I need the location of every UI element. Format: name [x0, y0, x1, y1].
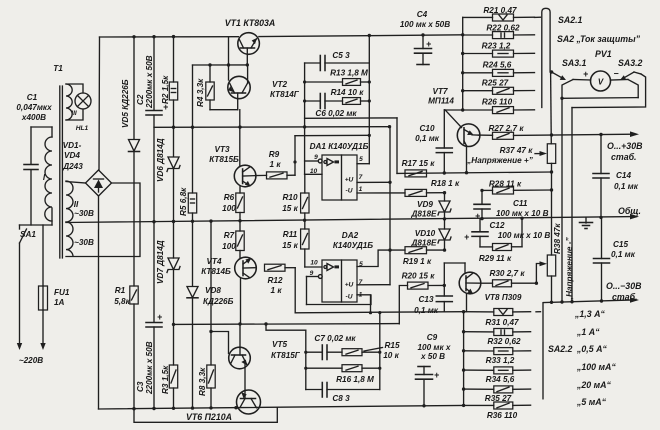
svg-text:С8 3: С8 3 [332, 394, 350, 403]
svg-text:К140УД1Б: К140УД1Б [333, 241, 373, 250]
node top rail junctions [132, 33, 464, 38]
capacitor C9 100mk [416, 333, 451, 406]
svg-text:Т1: Т1 [53, 64, 63, 73]
svg-text:R38 47к: R38 47к [553, 223, 562, 254]
resistor R24 5,6 [463, 61, 535, 77]
transistor VT2 КТ814Г [228, 65, 300, 110]
capacitor C12 100mk x 10V [464, 219, 550, 247]
wire main rail y222 [66, 217, 634, 223]
svg-text:РV1: РV1 [595, 49, 612, 59]
svg-text:КТ815Г: КТ815Г [271, 351, 301, 360]
svg-text:5: 5 [359, 156, 363, 163]
wire DA2 +U pin7 [357, 284, 390, 286]
fuse FU1 [39, 225, 70, 350]
svg-text:С15: С15 [613, 240, 628, 249]
svg-text:R18 1 к: R18 1 к [431, 179, 460, 188]
svg-text:100: 100 [222, 204, 236, 213]
potentiometer R38 47k [540, 223, 575, 302]
capacitor C13 0,1mk [414, 263, 464, 315]
svg-text:100 мк х 10 В: 100 мк х 10 В [496, 209, 549, 218]
wire drive line y327 [172, 322, 399, 326]
wire link to C7 box left [266, 324, 306, 330]
svg-text:R37 47 к: R37 47 к [500, 146, 534, 155]
svg-text:VT1 КТ803А: VT1 КТ803А [225, 18, 276, 28]
resistor R16 1,8М [306, 365, 380, 384]
svg-text:КТ815Б: КТ815Б [209, 155, 239, 164]
svg-text:С6 0,02 мк: С6 0,02 мк [315, 109, 357, 118]
resistor R35 27 [464, 386, 531, 403]
resistor R15 10k [342, 341, 400, 360]
svg-text:R1: R1 [115, 286, 126, 295]
svg-text:FU1: FU1 [54, 288, 70, 297]
wire DA2 pin10 [305, 266, 322, 268]
capacitor C6 0,02mk [315, 94, 357, 119]
svg-text:С12: С12 [489, 221, 504, 230]
svg-text:~30В: ~30В [74, 209, 94, 218]
transistor VT8 П309 [444, 263, 522, 312]
wire riser R30 to R38 wiper [536, 264, 540, 284]
svg-text:R33 1,2: R33 1,2 [486, 356, 515, 365]
resistor R10 15k [282, 174, 309, 220]
svg-text:VD4: VD4 [64, 151, 80, 160]
svg-text:+: + [583, 69, 588, 79]
svg-text:R7: R7 [224, 231, 235, 240]
resistor R6 100 [222, 187, 244, 221]
wire VT1 base line y65 [193, 64, 248, 66]
resistor R19 1k [390, 247, 446, 266]
svg-text:Общ.: Общ. [618, 206, 641, 216]
resistor R36 110 [464, 402, 531, 420]
wire C1 to primary top [31, 126, 52, 128]
svg-text:С4: С4 [417, 10, 428, 19]
switch SA3.2 contact [620, 72, 641, 80]
svg-text:О...+30В: О...+30В [607, 141, 643, 151]
wire DA1 pin5 [357, 163, 369, 165]
svg-text:SА2 „Ток защиты”: SА2 „Ток защиты” [557, 34, 641, 44]
wire top rail left [100, 36, 239, 38]
svg-text:КТ814Г: КТ814Г [270, 90, 300, 99]
node y65 junctions [208, 63, 249, 66]
svg-text:-U: -U [346, 294, 353, 301]
capacitor C11 100mk x 10V [474, 190, 549, 221]
svg-text:R36 110: R36 110 [487, 411, 518, 420]
svg-text:100 мк х 50В: 100 мк х 50В [400, 20, 450, 29]
capacitor C15 0,1mk [594, 217, 636, 301]
svg-text:2200мк х 50В: 2200мк х 50В [145, 341, 154, 395]
svg-text:Д243: Д243 [62, 162, 83, 171]
wire VT6 collector loop [134, 408, 277, 422]
zener VD9 Д818Е [410, 193, 451, 219]
switch bar SA2.2 [536, 303, 543, 399]
diode VD5 КД226Б [121, 37, 140, 286]
svg-text:+: + [464, 232, 469, 242]
capacitor C5 3 [305, 51, 370, 71]
svg-text:R2 1,5к: R2 1,5к [161, 75, 170, 104]
resistor R17 15k [402, 159, 436, 177]
resistor R7 100 [222, 221, 244, 258]
svg-text:х 50 В: х 50 В [420, 352, 445, 361]
wire column x572 [571, 108, 573, 302]
svg-text:VD5 КД226Б: VD5 КД226Б [121, 79, 130, 128]
svg-text:„0,5 А“: „0,5 А“ [576, 344, 607, 354]
svg-text:R10: R10 [282, 193, 297, 202]
bridge rectifier VD1-VD4 [86, 170, 112, 196]
svg-text:R14 10 к: R14 10 к [331, 88, 365, 97]
wire DA2 pin5 [357, 250, 390, 266]
wire VT2 collector column from rail [228, 37, 230, 80]
wire bottom rail [99, 405, 464, 409]
svg-text:0,1 мк: 0,1 мк [611, 250, 636, 259]
svg-text:VT8 П309: VT8 П309 [485, 293, 522, 302]
svg-text:VD8: VD8 [205, 286, 221, 295]
svg-text:0,047мкх: 0,047мкх [16, 103, 52, 112]
resistor R5 6,8k [179, 65, 197, 286]
svg-text:R4 3,3к: R4 3,3к [196, 78, 205, 107]
svg-text:„1 А“: „1 А“ [576, 327, 600, 337]
capacitor C4 100mk x 50V [400, 10, 450, 65]
svg-text:SА2.2: SА2.2 [548, 344, 573, 354]
svg-text:VT7: VT7 [432, 87, 447, 96]
svg-text:0,1 мк: 0,1 мк [614, 182, 639, 191]
svg-text:0,1 мк: 0,1 мк [414, 306, 439, 315]
svg-text:R34 5,6: R34 5,6 [486, 375, 515, 384]
resistor R30 2,7k [481, 269, 538, 287]
svg-text:VD6 Д814Д: VD6 Д814Д [156, 138, 165, 182]
svg-text:R32 0,62: R32 0,62 [487, 337, 521, 346]
transformer winding II upper [66, 181, 94, 222]
node rail222 junctions [152, 216, 602, 224]
ladder left rail bottom R31-R36 [462, 310, 465, 405]
svg-text:R31 0,47: R31 0,47 [485, 318, 519, 327]
resistor R13 1,8М [305, 69, 370, 86]
wire voltmeter loop left [560, 80, 638, 101]
svg-text:О...−30В: О...−30В [606, 281, 642, 291]
svg-text:R24 5,6: R24 5,6 [483, 61, 512, 70]
svg-text:-U: -U [346, 188, 353, 195]
svg-text:R25 27: R25 27 [482, 79, 509, 88]
feedback box 2 verticals [304, 313, 381, 390]
svg-text:VD7 Д814Д: VD7 Д814Д [156, 240, 165, 284]
voltmeter PV1 [573, 69, 628, 92]
svg-text:1 к: 1 к [270, 160, 282, 169]
transistor VT4 КТ814Б [201, 257, 256, 324]
capacitor C2 2200mk [136, 37, 168, 322]
svg-text:С9: С9 [427, 333, 438, 342]
transformer core [59, 86, 61, 258]
potentiometer R37 47k [466, 144, 556, 165]
wire middle rail y127 [154, 126, 390, 129]
resistor R3 1,5k [161, 365, 178, 408]
svg-text:R11: R11 [283, 230, 298, 239]
svg-text:1А: 1А [54, 298, 65, 307]
wire DA1 +U pin7 [357, 181, 390, 183]
svg-text:„20 мА“: „20 мА“ [576, 380, 611, 390]
svg-text:15 к: 15 к [282, 241, 298, 250]
resistor R34 5,6 [464, 367, 531, 384]
wire VT5 collector column [239, 324, 241, 348]
svg-text:Д818Е: Д818Е [410, 210, 437, 219]
svg-text:+: + [426, 39, 431, 49]
svg-text:С14: С14 [616, 171, 631, 180]
zener VD6 Д814Д [156, 138, 180, 221]
capacitor C10 0,1mk [415, 110, 452, 173]
arrow output plus30 [630, 131, 639, 137]
wire right column x551 [550, 72, 553, 302]
capacitor C8 3 [306, 383, 380, 404]
wire winding II top to bridge left [66, 182, 86, 184]
svg-text:2200мк х 50В: 2200мк х 50В [145, 55, 154, 109]
transistor VT5 КТ815Г [229, 340, 301, 391]
resistor R9 1k [256, 150, 295, 179]
resistor R28 11k [480, 180, 553, 195]
svg-text:VT6 П210А: VT6 П210А [186, 412, 232, 422]
svg-text:15 к: 15 к [282, 204, 298, 213]
wire bridge minus down to bottom rail [98, 196, 100, 409]
svg-text:SА2.1: SА2.1 [558, 15, 583, 25]
wire top rail right [259, 35, 463, 37]
wire winding III to lamp [66, 84, 83, 93]
zener VD10 Д818Е [410, 219, 451, 250]
resistor R26 110 [445, 98, 535, 114]
svg-text:С11: С11 [513, 199, 528, 208]
svg-text:VD1-: VD1- [63, 141, 82, 150]
wire bridge plus up to top rail [98, 37, 101, 170]
node plus30 junctions [550, 133, 603, 137]
resistor R1 5,8k [114, 286, 138, 409]
svg-text:100 мк х 10 В: 100 мк х 10 В [498, 231, 551, 240]
svg-text:V: V [598, 78, 604, 87]
svg-text:R19 1 к: R19 1 к [403, 257, 432, 266]
op-amp DA1 К140УД1Б [310, 142, 369, 200]
ground symbol [580, 218, 593, 229]
svg-text:х400В: х400В [21, 113, 46, 122]
svg-text:„5 мА“: „5 мА“ [576, 397, 607, 407]
resistor R25 27 [463, 79, 535, 95]
svg-text:R8 3,3к: R8 3,3к [198, 367, 207, 396]
resistor R2 1,5k [161, 37, 178, 156]
diode VD8 КД226Б [187, 286, 234, 408]
transistor VT7 МП114 [428, 87, 480, 173]
arrow rail222 output [630, 214, 639, 220]
svg-text:+: + [157, 312, 162, 322]
svg-text:VT3: VT3 [214, 145, 229, 154]
wire column x562 [561, 98, 563, 302]
svg-text:7: 7 [359, 174, 363, 181]
transformer winding II lower [66, 222, 94, 256]
svg-text:II: II [74, 200, 79, 209]
svg-text:III: III [71, 110, 77, 117]
svg-text:R23 1,2: R23 1,2 [482, 42, 511, 51]
wire R9 node riser to pin9 and top line [293, 135, 369, 175]
transistor VT6 П210А [237, 390, 261, 414]
svg-text:С2: С2 [136, 94, 145, 105]
wire bottom AC node [20, 224, 53, 226]
wire DA1 pin9 [305, 159, 323, 163]
resistor R33 1,2 [464, 348, 531, 365]
svg-text:R30 2,7 к: R30 2,7 к [489, 269, 525, 278]
resistor R12 1k [265, 264, 296, 313]
svg-text:R3 1,5к: R3 1,5к [161, 365, 170, 394]
svg-text:МП114: МП114 [428, 97, 454, 106]
transformer winding III [66, 84, 72, 120]
resistor R31 0,47 [464, 309, 531, 328]
lamp HL1 [75, 93, 91, 132]
svg-text:100 мк х: 100 мк х [418, 343, 451, 352]
resistor R8 3,3k [198, 221, 215, 408]
feedback box verticals [303, 36, 371, 175]
wire emitter rail y173 [397, 170, 553, 174]
svg-text:КТ814Б: КТ814Б [201, 267, 231, 276]
svg-text:R9: R9 [269, 150, 280, 159]
svg-text:9: 9 [314, 154, 318, 161]
resistor R27 2,7k [478, 124, 634, 139]
node bottom rail junctions [132, 404, 465, 411]
svg-text:R13 1,8 М: R13 1,8 М [330, 69, 368, 78]
svg-text:1 к: 1 к [271, 286, 283, 295]
transistor VT1 КТ803А [225, 18, 276, 65]
svg-text:DА2: DА2 [342, 231, 359, 240]
wire VT5 base branch [211, 332, 229, 354]
resistor R14 10k [305, 88, 370, 104]
svg-text:„1,3 А“: „1,3 А“ [574, 309, 605, 319]
wire DA1 -U pin1 to R18 row [357, 192, 405, 194]
wire bridge AC return [66, 183, 140, 257]
resistor R11 15k [282, 220, 309, 267]
svg-text:1: 1 [359, 186, 363, 193]
svg-text:VT2: VT2 [272, 80, 287, 89]
svg-text:„Напряжение +”: „Напряжение +” [466, 156, 534, 165]
resistor R29 11k [479, 218, 522, 263]
svg-text:„100 мА“: „100 мА“ [576, 362, 616, 372]
svg-text:10: 10 [310, 260, 318, 267]
svg-text:5,8к: 5,8к [114, 297, 130, 306]
svg-text:−: − [614, 69, 619, 79]
switch bar SA2.1 [535, 8, 551, 107]
ladder left rail top R21-R26 [461, 17, 464, 111]
resistor R4 3,3k [196, 65, 214, 110]
label VD1-VD4 Д243 [62, 141, 83, 171]
node rail127 junctions [172, 125, 306, 129]
wire center column VT2 to VT3 [239, 110, 241, 166]
svg-text:R29 11 к: R29 11 к [479, 254, 512, 263]
op-amp DA2 К140УД1Б [310, 231, 374, 302]
wire box bottom line y118 [305, 117, 397, 119]
svg-text:0,1 мк: 0,1 мк [415, 134, 440, 143]
capacitor C3 2200mk [136, 312, 162, 409]
svg-text:R27 2,7 к: R27 2,7 к [488, 124, 524, 133]
svg-text:С7 0,02 мк: С7 0,02 мк [314, 334, 356, 343]
zener VD7 Д814Д [156, 222, 180, 366]
svg-text:R5 6,8к: R5 6,8к [179, 187, 188, 216]
wire DA1 pin10 [305, 173, 322, 175]
wire R4 bottom to VT2 base [210, 109, 238, 111]
svg-text:R17 15 к: R17 15 к [402, 159, 436, 168]
svg-text:+U: +U [345, 177, 354, 184]
svg-text:~220В: ~220В [19, 356, 43, 365]
svg-text:VD9: VD9 [417, 200, 433, 209]
resistor R20 15k [399, 272, 446, 324]
svg-text:стаб.: стаб. [611, 152, 637, 162]
svg-text:VD10: VD10 [415, 229, 436, 238]
svg-text:+U: +U [345, 282, 354, 289]
svg-text:SА3.1: SА3.1 [562, 58, 587, 68]
wire corner x397 [396, 118, 398, 173]
svg-text:10 к: 10 к [383, 351, 399, 360]
svg-text:VT4: VT4 [206, 257, 221, 266]
wire DA2 -U pin1 [357, 295, 372, 315]
capacitor C1 [16, 93, 52, 225]
switch SA1 [17, 225, 37, 350]
svg-text:С13: С13 [418, 295, 433, 304]
svg-text:С10: С10 [419, 124, 434, 133]
resistor R22 0,62 [463, 24, 535, 39]
svg-text:DА1 К140УД1Б: DА1 К140УД1Б [310, 142, 369, 151]
resistor R18 1k [405, 179, 460, 196]
wire under-DA2 line y312.7 [295, 311, 444, 314]
svg-text:VT5: VT5 [272, 340, 287, 349]
label O...+30V stab [607, 141, 643, 162]
svg-text:~30В: ~30В [74, 238, 94, 247]
wire under-DA2 line y304.5 [307, 295, 372, 305]
svg-text:HL1: HL1 [76, 125, 89, 132]
svg-text:+: + [434, 370, 439, 380]
svg-text:R26 110: R26 110 [482, 98, 513, 107]
svg-text:R16 1,8 М: R16 1,8 М [336, 375, 374, 384]
svg-text:100: 100 [222, 242, 236, 251]
switch SA3.1 contact [550, 70, 566, 80]
transformer primary winding I [43, 127, 52, 225]
svg-text:С5 3: С5 3 [332, 51, 350, 60]
wire DA2 pin9 [307, 275, 323, 305]
svg-text:С3: С3 [136, 381, 145, 392]
label O...-30V stab [606, 281, 642, 302]
svg-text:С1: С1 [27, 93, 38, 102]
wire SA3.2 return [572, 74, 646, 108]
capacitor C14 0,1mk [593, 135, 639, 218]
capacitor C7 0,02mk [306, 334, 357, 360]
svg-text:R15: R15 [384, 341, 399, 350]
svg-text:R6: R6 [224, 193, 235, 202]
resistor R21 0,47 [463, 6, 535, 21]
transistor VT3 КТ815Б [209, 145, 256, 187]
svg-text:R20 15 к: R20 15 к [402, 272, 436, 281]
svg-text:SА3.2: SА3.2 [618, 58, 643, 68]
resistor R32 0,62 [464, 329, 531, 347]
wire rail minus30 [544, 297, 640, 304]
resistor R23 1,2 [463, 42, 535, 58]
svg-text:R12: R12 [267, 276, 282, 285]
svg-text:КД226Б: КД226Б [203, 297, 234, 306]
wire column x390 DA side [388, 125, 392, 285]
